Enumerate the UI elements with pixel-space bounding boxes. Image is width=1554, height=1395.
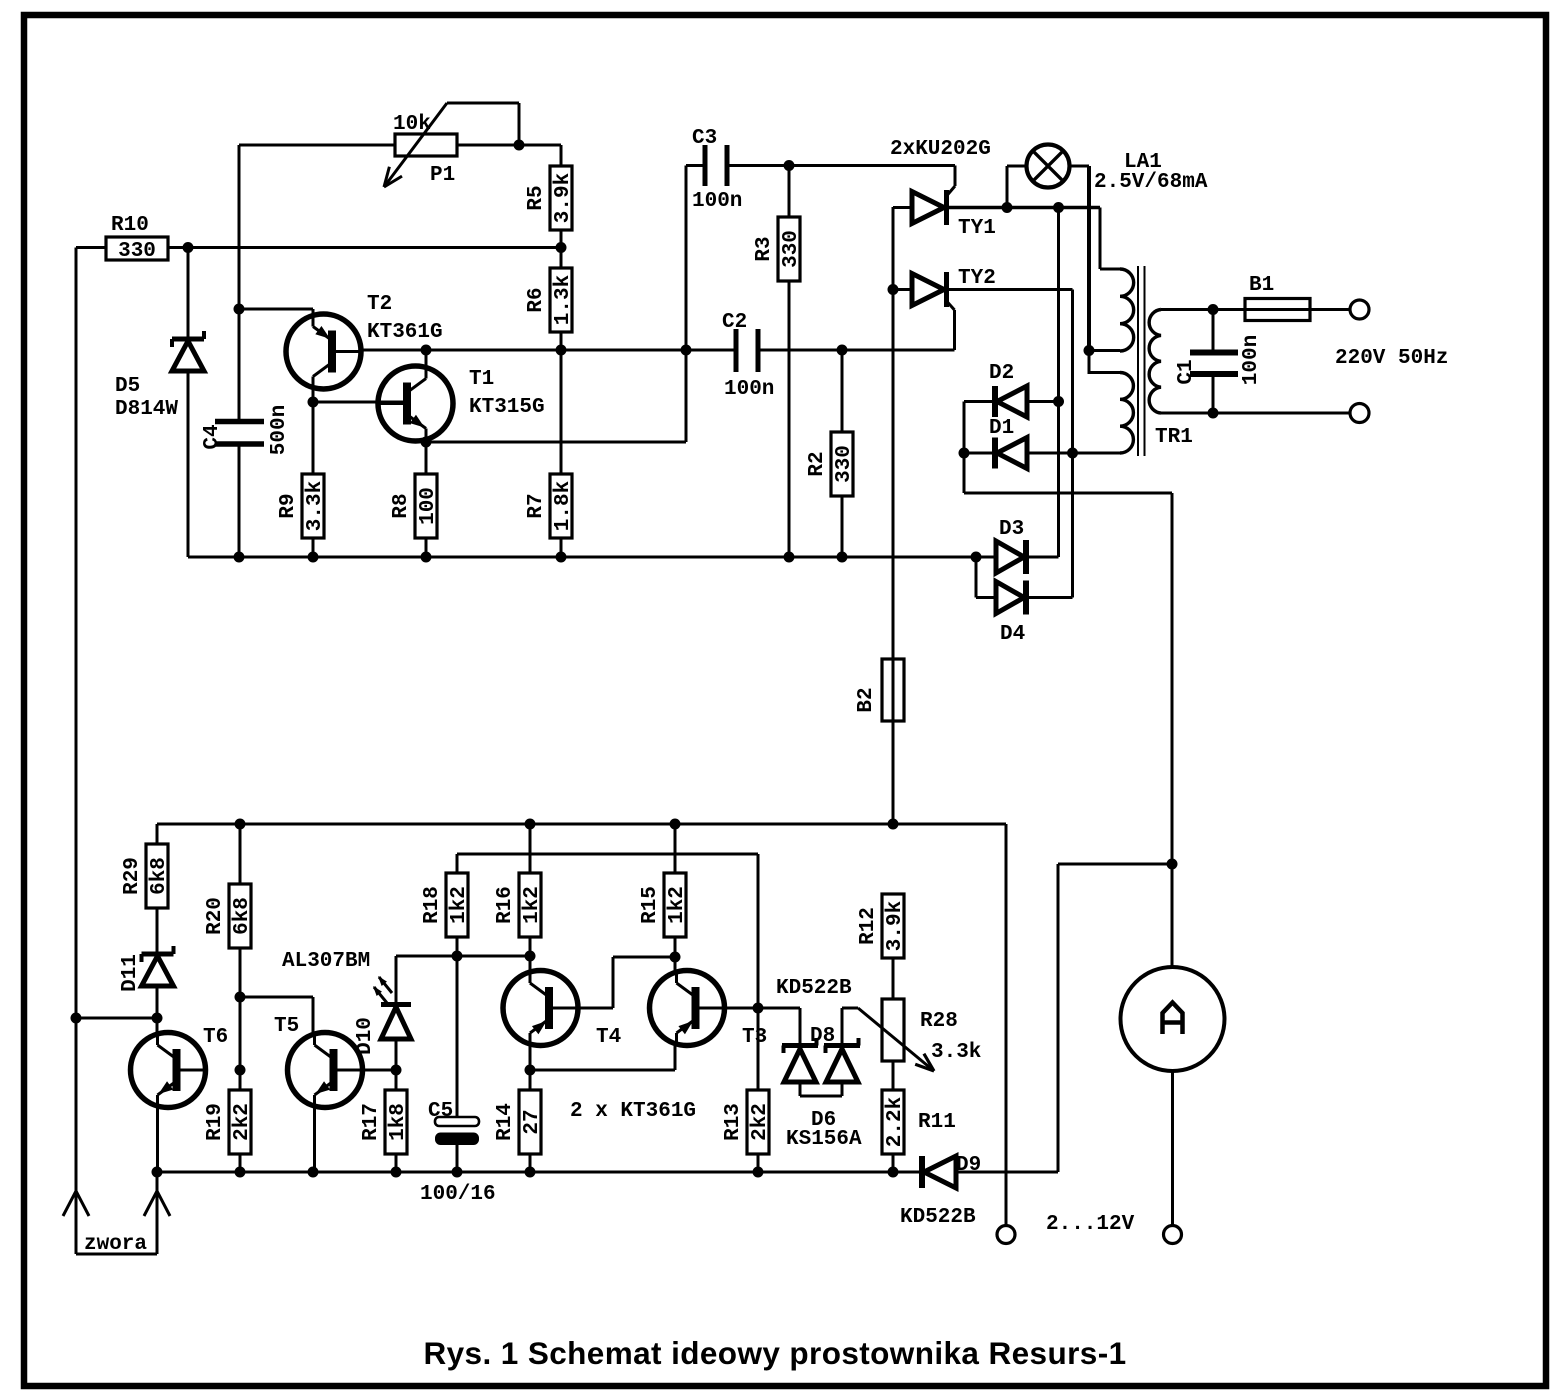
resistor R10 — [106, 214, 168, 263]
node D10 anode junction — [391, 1065, 402, 1076]
svg-text:R28: R28 — [920, 1010, 958, 1033]
wire T3 base junction column — [757, 854, 760, 1090]
node R11 ground — [888, 1167, 899, 1178]
wire output left column — [1005, 824, 1008, 1226]
diode D3 — [976, 518, 1059, 574]
wire R20 top stub — [239, 824, 242, 884]
svg-text:1.3k: 1.3k — [552, 275, 575, 325]
resistor R20 — [204, 884, 254, 948]
resistor R19 — [204, 1090, 254, 1154]
wire base rail y350 — [361, 349, 736, 352]
wire R14 stubs — [529, 1070, 532, 1172]
wire R3 top — [788, 166, 791, 218]
wire supply rail bottom section — [157, 823, 1006, 826]
caption — [423, 1335, 1126, 1371]
wire T2 collector down — [312, 389, 315, 474]
svg-text:D5: D5 — [115, 375, 140, 398]
svg-text:1.8k: 1.8k — [552, 481, 575, 531]
svg-text:D11: D11 — [119, 954, 142, 992]
led D10 arrows — [373, 976, 392, 1003]
resistor R13 — [722, 1090, 772, 1154]
wire R10 right to R5 column — [168, 246, 561, 249]
wire ground rail bottom section — [157, 1171, 922, 1174]
jumper zwora — [63, 1172, 170, 1256]
svg-text:T5: T5 — [274, 1015, 299, 1038]
wire R15 top stub — [674, 824, 677, 873]
svg-text:Rys. 1 Schemat ideowy prostown: Rys. 1 Schemat ideowy prostownika Resurs… — [423, 1335, 1126, 1371]
label 2 x KT361G — [570, 1100, 696, 1123]
wire TY cathode to transformer top — [1007, 208, 1120, 270]
svg-text:100n: 100n — [724, 378, 774, 401]
resistor R8 — [390, 474, 440, 538]
svg-text:R5: R5 — [525, 185, 548, 210]
wire R12 bottom — [892, 958, 895, 999]
wire D2 column — [1057, 208, 1060, 558]
wire C4 bottom — [238, 447, 241, 558]
resistor R11 — [882, 1090, 956, 1154]
wire R20 bottom — [239, 948, 242, 1090]
wire T2 collector to T1 base — [313, 401, 404, 404]
node R12 rail junction — [888, 819, 899, 830]
svg-text:B1: B1 — [1249, 274, 1274, 297]
thyristor TY1 — [893, 166, 1007, 241]
thyristor TY2 — [893, 267, 1073, 350]
wire R2 top — [841, 350, 844, 432]
wire R18 bottom to C5 — [456, 937, 459, 1117]
svg-text:100n: 100n — [1240, 335, 1263, 385]
transformer TR1 primary upper winding — [1120, 269, 1134, 351]
svg-text:C2: C2 — [722, 311, 747, 334]
svg-text:R16: R16 — [494, 886, 517, 924]
wire R8 bottom — [425, 538, 428, 557]
wire T3 base to D8 — [758, 1008, 800, 1045]
svg-text:330: 330 — [780, 230, 803, 268]
node R16 top — [525, 819, 536, 830]
node R9 ground — [308, 552, 319, 563]
wire T5 base to D10 — [363, 1069, 397, 1072]
svg-text:100/16: 100/16 — [420, 1183, 496, 1206]
node T5 collector junction — [235, 992, 246, 1003]
node C1 top junction — [1208, 304, 1219, 315]
svg-text:6k8: 6k8 — [231, 897, 254, 935]
wire T5 collector — [240, 997, 313, 1034]
svg-text:KS156A: KS156A — [786, 1128, 862, 1151]
transformer TR1 core — [1138, 266, 1193, 456]
svg-text:KT315G: KT315G — [469, 396, 545, 419]
ammeter A — [1121, 967, 1225, 1071]
node R6 base-rail junction — [556, 345, 567, 356]
zener D11 — [119, 908, 173, 1018]
wire left rail to D11 junction — [76, 1017, 157, 1020]
wire primary center tap — [1089, 351, 1120, 373]
wire R6 junction down to R7 — [560, 350, 563, 474]
svg-text:D1: D1 — [989, 417, 1014, 440]
svg-text:2.2k: 2.2k — [884, 1097, 907, 1147]
svg-text:2k2: 2k2 — [749, 1103, 772, 1141]
wire R5 to R6 — [560, 230, 563, 268]
svg-text:R2: R2 — [806, 451, 829, 476]
svg-text:1k2: 1k2 — [666, 886, 689, 924]
wire P1 right — [457, 144, 519, 147]
svg-text:D2: D2 — [989, 362, 1014, 385]
svg-text:2...12V: 2...12V — [1046, 1213, 1135, 1236]
svg-text:330: 330 — [118, 240, 156, 263]
svg-text:100: 100 — [417, 487, 440, 525]
node D1-primary junction — [1067, 448, 1078, 459]
wire R17 stubs — [395, 1070, 398, 1172]
wire T1 emitter to C3 column — [426, 166, 686, 443]
svg-text:2k2: 2k2 — [231, 1103, 254, 1141]
wire R19 bottom — [239, 1154, 242, 1172]
resistor R3 — [753, 217, 803, 281]
svg-text:1k8: 1k8 — [387, 1103, 410, 1141]
wire left rail from R10 down to jumper — [75, 248, 78, 1255]
label KD522B top — [776, 977, 852, 1000]
svg-text:R7: R7 — [525, 493, 548, 518]
node T1 emitter junction — [421, 437, 432, 448]
svg-text:D814W: D814W — [115, 398, 178, 421]
wire R10 left stub — [76, 246, 106, 249]
node R3 top junction — [784, 160, 795, 171]
svg-text:C3: C3 — [692, 127, 717, 150]
node ground rail x157 — [152, 1167, 163, 1178]
wire junction to T4 collector node — [457, 955, 530, 958]
transistor T6 — [131, 1026, 229, 1108]
svg-text:R12: R12 — [857, 907, 880, 945]
svg-text:6k8: 6k8 — [148, 857, 171, 895]
svg-text:C4: C4 — [201, 424, 224, 449]
svg-text:2 x KT361G: 2 x KT361G — [570, 1100, 696, 1123]
node left rail junction — [71, 1013, 82, 1024]
wire top rail to P1 — [239, 144, 395, 147]
svg-text:D9: D9 — [956, 1154, 981, 1177]
node lamp-tap junction — [1084, 345, 1095, 356]
svg-text:T2: T2 — [367, 293, 392, 316]
wire R2 bottom — [841, 496, 844, 557]
svg-text:R29: R29 — [121, 857, 144, 895]
wire R11 bottom — [892, 1154, 895, 1172]
wire D10 to R18 junction — [396, 955, 457, 958]
node junction R10-D5 — [183, 242, 194, 253]
resistor R6 — [525, 268, 575, 332]
wire R16 top stub — [529, 824, 532, 873]
resistor R2 — [806, 432, 856, 496]
wire T6 collector — [156, 1018, 159, 1034]
svg-text:R13: R13 — [722, 1103, 745, 1141]
node D1-D2 left junction — [959, 448, 970, 459]
wire R6 bottom — [560, 332, 563, 350]
wire T4-T3 emitter link — [530, 1045, 675, 1070]
capacitor C5 — [420, 1100, 496, 1206]
resistor R5 — [525, 166, 575, 230]
resistor R12 — [857, 894, 907, 958]
wire R16 bottom — [529, 937, 532, 971]
wire ammeter bottom — [1171, 1071, 1174, 1226]
svg-text:R20: R20 — [204, 897, 227, 935]
node ground rail x313 — [308, 1167, 319, 1178]
node ammeter column junction — [1167, 859, 1178, 870]
resistor R14 — [494, 1090, 544, 1154]
node T2 emitter junction — [234, 304, 245, 315]
svg-text:KD522B: KD522B — [776, 977, 852, 1000]
label 220V 50Hz — [1335, 347, 1448, 370]
wire R3 bottom long — [788, 281, 791, 557]
svg-text:R15: R15 — [639, 886, 662, 924]
svg-text:D10: D10 — [354, 1017, 377, 1055]
transformer TR1 secondary winding — [1149, 310, 1161, 414]
diode D9 — [900, 1154, 981, 1229]
lamp LA1 — [1027, 145, 1208, 195]
wire ground rail top section — [188, 556, 976, 559]
svg-text:TR1: TR1 — [1155, 426, 1193, 449]
potentiometer P1 — [384, 103, 519, 187]
node ground rail x240 — [235, 1167, 246, 1178]
wire T1 emitter down — [425, 440, 428, 474]
diode D1 — [964, 417, 1073, 469]
node R15 top — [670, 819, 681, 830]
resistor R17 — [360, 1090, 410, 1154]
led D10 — [282, 950, 411, 1070]
svg-text:R14: R14 — [494, 1103, 517, 1141]
resistor R15 — [639, 873, 689, 937]
svg-text:C1: C1 — [1175, 359, 1198, 384]
node T3 base junction — [753, 1003, 764, 1014]
svg-text:3.3k: 3.3k — [931, 1041, 981, 1064]
wire R7 bottom — [560, 538, 563, 557]
svg-text:D3: D3 — [999, 518, 1024, 541]
svg-text:27: 27 — [521, 1109, 544, 1134]
wire C5 bottom — [456, 1145, 459, 1172]
svg-text:2xKU202G: 2xKU202G — [890, 138, 991, 161]
node D11 bottom junction — [152, 1013, 163, 1024]
capacitor C3 — [686, 127, 742, 213]
wire primary bottom end — [1073, 452, 1121, 455]
svg-text:100n: 100n — [692, 190, 742, 213]
node T4 collector junction — [525, 951, 536, 962]
wire D5 bottom to ground rail — [187, 371, 190, 557]
resistor R9 — [277, 474, 327, 538]
wire T4 emitter — [529, 1045, 532, 1070]
wire P1 junction to R5 — [519, 145, 561, 166]
node ground rail x530 — [525, 1167, 536, 1178]
node T3 collector junction — [670, 952, 681, 963]
resistor R16 — [494, 873, 544, 937]
svg-text:D4: D4 — [1000, 623, 1025, 646]
wire TY anode column — [892, 207, 895, 824]
wire R13 bottom — [757, 1154, 760, 1172]
wire T5 emitter — [313, 1107, 316, 1172]
svg-text:1k2: 1k2 — [521, 886, 544, 924]
node T6 base junction — [235, 1065, 246, 1076]
resistor R7 — [525, 474, 575, 538]
terminal output plus — [1164, 1226, 1182, 1244]
node R2 ground — [837, 552, 848, 563]
node ground rail x758 — [753, 1167, 764, 1178]
svg-text:T3: T3 — [742, 1026, 767, 1049]
node TY2 anode junction — [888, 284, 899, 295]
svg-text:B2: B2 — [855, 687, 878, 712]
node R7 ground — [556, 552, 567, 563]
capacitor C4 — [201, 405, 291, 455]
svg-text:R3: R3 — [753, 236, 776, 261]
wire D1-D2 bracket to ammeter — [964, 402, 1172, 968]
terminal 220V top — [1350, 300, 1369, 319]
svg-text:330: 330 — [833, 445, 856, 483]
wire R18 top stub — [456, 854, 459, 873]
transistor T3 — [650, 971, 768, 1050]
capacitor C1 — [1175, 310, 1263, 414]
node R5-R6 junction — [556, 242, 567, 253]
node T4 emitter junction — [525, 1065, 536, 1076]
wire D9 to ammeter column — [956, 864, 1172, 1172]
wire R9 bottom — [312, 538, 315, 557]
wire D1 column — [1071, 290, 1074, 598]
node C4 ground — [234, 552, 245, 563]
node R3 ground — [784, 552, 795, 563]
svg-text:P1: P1 — [430, 164, 455, 187]
wire T4 base up-over — [578, 957, 675, 1008]
terminal 220V bottom — [1350, 404, 1369, 423]
wire C2 right rail — [758, 349, 955, 352]
diode D4 — [976, 557, 1073, 646]
svg-text:C5: C5 — [428, 1100, 453, 1123]
terminal output minus — [997, 1226, 1015, 1244]
svg-text:T1: T1 — [469, 368, 494, 391]
wire C3 right to gate rail — [727, 164, 955, 167]
wire lamp loop left — [1007, 166, 1027, 208]
svg-text:3.9k: 3.9k — [552, 173, 575, 223]
node ground rail x457 — [452, 1167, 463, 1178]
svg-text:T4: T4 — [596, 1026, 621, 1049]
wire T2 emitter top — [239, 309, 313, 314]
wire secondary bottom — [1161, 412, 1350, 415]
wire T1 collector up — [425, 350, 428, 367]
node T1 collector junction — [421, 345, 432, 356]
svg-text:1k2: 1k2 — [448, 886, 471, 924]
svg-text:AL307BM: AL307BM — [282, 950, 370, 973]
diode D8 — [782, 1025, 835, 1096]
svg-text:KT361G: KT361G — [367, 321, 443, 344]
svg-text:R19: R19 — [204, 1103, 227, 1141]
resistor R18 — [421, 873, 471, 937]
svg-text:R9: R9 — [277, 493, 300, 518]
wire P1 column vertical — [238, 145, 241, 419]
node P1 wiper junction — [514, 140, 525, 151]
svg-text:R18: R18 — [421, 886, 444, 924]
svg-text:R11: R11 — [918, 1111, 956, 1134]
node R20 top — [235, 819, 246, 830]
node R2 top junction — [837, 345, 848, 356]
node D2 column top junction — [1053, 202, 1064, 213]
wire D5 top — [187, 248, 190, 340]
wire T6 emitter — [156, 1107, 159, 1172]
svg-text:R8: R8 — [390, 493, 413, 518]
diode D6 — [786, 1008, 862, 1151]
resistor R29 with top stub — [121, 824, 171, 908]
diode D2 — [964, 362, 1059, 417]
svg-text:zwora: zwora — [84, 1233, 147, 1256]
node T2-T1 base junction — [308, 397, 319, 408]
svg-text:TY1: TY1 — [958, 217, 996, 240]
wire R28 bottom — [892, 1061, 895, 1090]
node C3-column junction — [681, 345, 692, 356]
wire B1 to terminal — [1310, 308, 1350, 311]
node R8 ground — [421, 552, 432, 563]
zener D5 — [115, 331, 204, 421]
node ground rail x396 — [391, 1167, 402, 1178]
node R18-D10 junction — [452, 951, 463, 962]
node TY1 cathode junction — [1002, 202, 1013, 213]
transistor T2 — [286, 293, 443, 389]
label 2...12V — [1046, 1213, 1135, 1236]
fuse B1 — [1245, 274, 1310, 321]
svg-text:3.9k: 3.9k — [884, 901, 907, 951]
svg-text:R17: R17 — [360, 1103, 383, 1141]
svg-text:KD522B: KD522B — [900, 1206, 976, 1229]
wire feedback rail — [457, 853, 758, 856]
transistor T5 — [274, 1015, 363, 1108]
svg-text:R10: R10 — [111, 214, 149, 237]
wire R15 bottom — [674, 937, 677, 971]
node D3 anode junction — [971, 552, 982, 563]
wire lamp right down to tap — [1070, 166, 1090, 351]
svg-text:R6: R6 — [525, 287, 548, 312]
transformer TR1 primary lower winding — [1120, 373, 1133, 453]
svg-text:2.5V/68mA: 2.5V/68mA — [1094, 171, 1208, 194]
svg-text:3.3k: 3.3k — [304, 481, 327, 531]
svg-text:220V 50Hz: 220V 50Hz — [1335, 347, 1448, 370]
wire T3 base — [725, 1007, 759, 1010]
potentiometer R28 — [842, 999, 981, 1071]
svg-text:TY2: TY2 — [958, 267, 996, 290]
svg-text:500n: 500n — [268, 405, 291, 455]
svg-text:T6: T6 — [203, 1026, 228, 1049]
wire secondary top — [1161, 308, 1245, 311]
transistor T1 — [378, 366, 545, 441]
label 2xKU202G — [890, 138, 991, 161]
node D2 output junction — [1053, 396, 1064, 407]
fuse B2 — [855, 659, 904, 721]
node C1 bottom junction — [1208, 408, 1219, 419]
transistor T4 — [503, 971, 621, 1050]
capacitor C2 — [722, 311, 774, 401]
